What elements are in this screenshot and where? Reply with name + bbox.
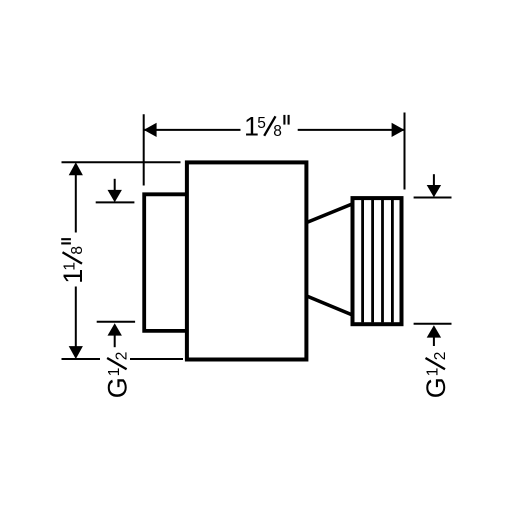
svg-text:2: 2 (432, 352, 449, 361)
svg-text:1: 1 (106, 368, 123, 377)
bottom-right small arrow shaft (433, 336, 435, 346)
main body rectangle (187, 162, 307, 359)
left dimension top arrowhead (69, 162, 83, 175)
left flange plate (144, 194, 187, 331)
svg-text:1: 1 (61, 262, 78, 271)
left dimension top extension line (62, 161, 181, 163)
top dimension line right segment (298, 129, 405, 131)
thread stripe 1 (361, 200, 364, 323)
svg-text:8: 8 (69, 246, 86, 255)
svg-text:G: G (421, 377, 451, 398)
svg-text:2: 2 (114, 352, 131, 361)
left dimension bottom arrowhead (69, 346, 83, 359)
left dimension bottom datum line left piece (62, 358, 101, 360)
svg-text:8: 8 (273, 123, 282, 140)
left dimension line lower segment (75, 287, 77, 348)
svg-text:1: 1 (424, 368, 441, 377)
top dimension right extension line (404, 113, 406, 190)
bottom-left tick line (97, 321, 135, 323)
dimension label 1 5/8 inch (244, 112, 289, 142)
thread stripe 4 (391, 200, 394, 323)
thread label G 1/2 right rotated (421, 352, 451, 399)
top-right small arrowhead pointing down (427, 185, 441, 197)
bottom-right tick line (414, 323, 452, 325)
bottom-left small arrowhead pointing up (108, 323, 122, 335)
svg-text:G: G (102, 377, 132, 398)
top dimension line left segment (144, 129, 241, 131)
top-left small arrowhead pointing down (108, 190, 122, 202)
left dimension bottom datum line right piece (130, 358, 183, 360)
thread label G 1/2 left rotated (102, 352, 132, 399)
top dimension right arrowhead (392, 123, 405, 137)
bottom-right small arrowhead pointing up (427, 325, 441, 337)
top-left tick line (96, 201, 135, 203)
bottom-left small arrow shaft (114, 335, 116, 347)
left dimension line upper segment (75, 174, 77, 233)
top-right small arrow shaft (433, 174, 435, 186)
svg-text:5: 5 (257, 115, 266, 132)
top-left small arrow shaft (114, 179, 116, 191)
lower taper line (307, 296, 353, 315)
upper taper line (307, 204, 353, 223)
threaded connector rectangle (353, 198, 402, 324)
top-right tick line (414, 197, 452, 199)
thread stripe 3 (381, 200, 384, 323)
top dimension left extension line (143, 114, 145, 185)
top dimension left arrowhead (144, 123, 157, 137)
dimension label 1 1/8 inch rotated (58, 239, 88, 284)
thread stripe 2 (371, 200, 374, 323)
